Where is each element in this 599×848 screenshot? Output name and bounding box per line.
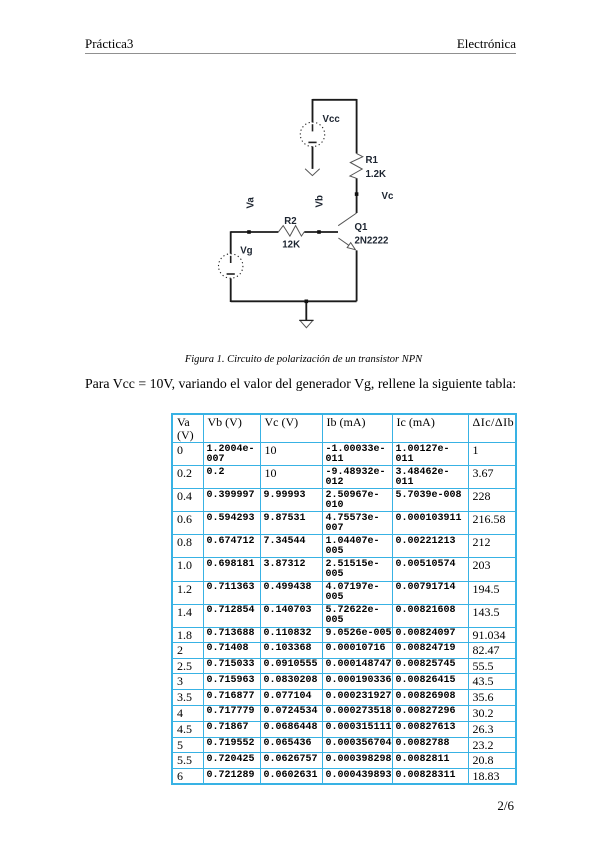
svg-text:Vg: Vg — [240, 246, 252, 257]
svg-text:Vb: Vb — [315, 195, 326, 207]
svg-text:Vcc: Vcc — [323, 114, 341, 125]
svg-text:R1: R1 — [366, 155, 379, 166]
svg-text:Vc: Vc — [382, 191, 394, 202]
svg-text:Va: Va — [246, 197, 257, 209]
svg-text:12K: 12K — [282, 240, 300, 251]
svg-text:1.2K: 1.2K — [366, 169, 386, 180]
svg-text:Q1: Q1 — [355, 222, 369, 233]
svg-text:2N2222: 2N2222 — [355, 235, 389, 246]
svg-text:R2: R2 — [284, 216, 296, 227]
